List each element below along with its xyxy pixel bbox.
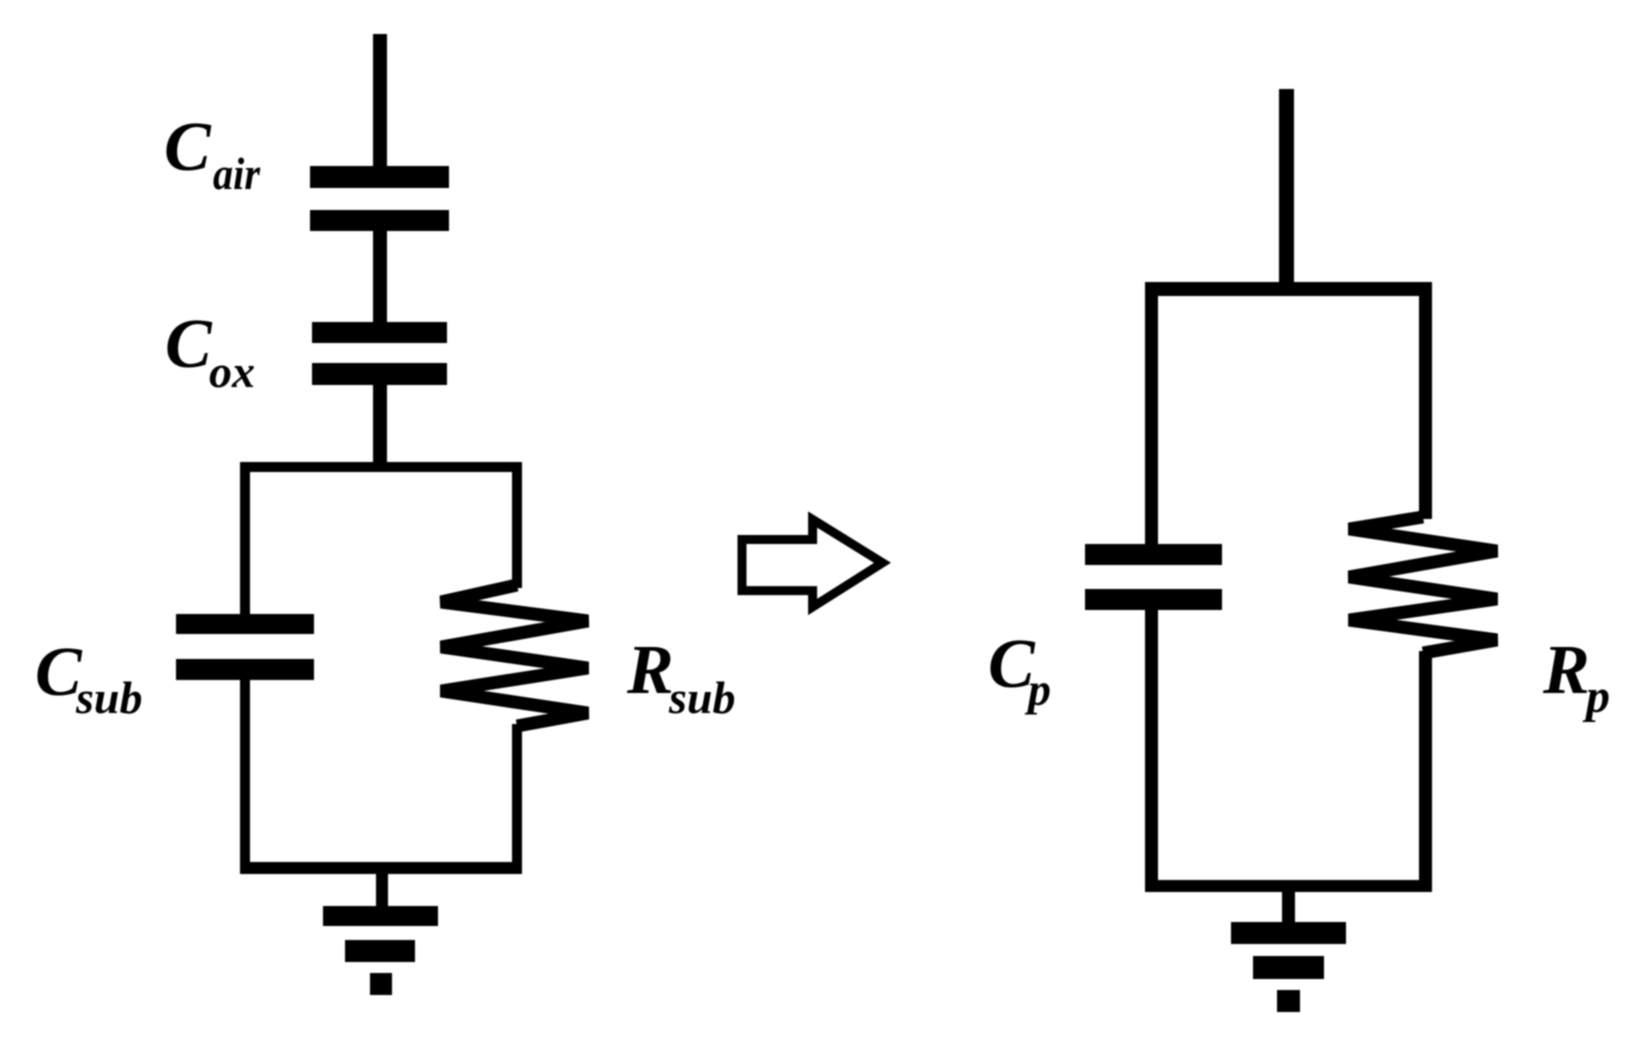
wire box bottom edge right circuit (1145, 880, 1432, 892)
resistor R_sub (441, 585, 588, 726)
wire right branch upper (512, 462, 522, 588)
wire between C_air and C_ox (373, 231, 387, 322)
ground right circuit (1231, 922, 1346, 1012)
label C_air (164, 109, 261, 199)
wire left branch upper right circuit (1145, 282, 1158, 544)
wire top lead left circuit (373, 34, 387, 170)
svg-text:C: C (165, 306, 213, 383)
wire left branch upper (node A) (240, 462, 250, 614)
wire right branch lower right circuit (1419, 651, 1432, 886)
label R_p (1542, 632, 1610, 723)
wire left branch lower (240, 679, 250, 872)
svg-text:ox: ox (209, 346, 255, 397)
svg-text:sub: sub (75, 672, 142, 723)
label C_ox (165, 306, 255, 397)
wire ground stub right circuit (1282, 892, 1295, 924)
svg-text:air: air (213, 148, 261, 199)
label R_sub (626, 632, 735, 723)
wire top lead right circuit (1279, 89, 1294, 289)
wire right branch upper right circuit (1419, 282, 1432, 519)
label C_p (988, 626, 1051, 715)
svg-text:C: C (164, 109, 212, 186)
wire C_ox to box top (373, 385, 387, 467)
wire left branch lower right circuit (1145, 610, 1158, 886)
capacitor C_ox (312, 322, 447, 385)
wire box bottom edge left circuit (240, 862, 522, 874)
wire right branch lower (512, 724, 522, 872)
svg-text:p: p (1024, 664, 1051, 715)
wire box top edge left circuit (240, 462, 522, 472)
resistor R_p (1349, 517, 1497, 653)
svg-text:R: R (626, 632, 674, 709)
ground left circuit (323, 906, 438, 995)
svg-text:p: p (1582, 670, 1610, 723)
capacitor C_sub (176, 614, 314, 680)
svg-text:sub: sub (668, 672, 735, 723)
wire ground stub left circuit (376, 872, 388, 908)
label C_sub (35, 634, 142, 723)
svg-text:R: R (1542, 632, 1590, 709)
arrow (742, 520, 883, 608)
capacitor C_air (310, 166, 449, 231)
capacitor C_p (1085, 544, 1222, 610)
wire box top edge right circuit (1145, 282, 1432, 296)
